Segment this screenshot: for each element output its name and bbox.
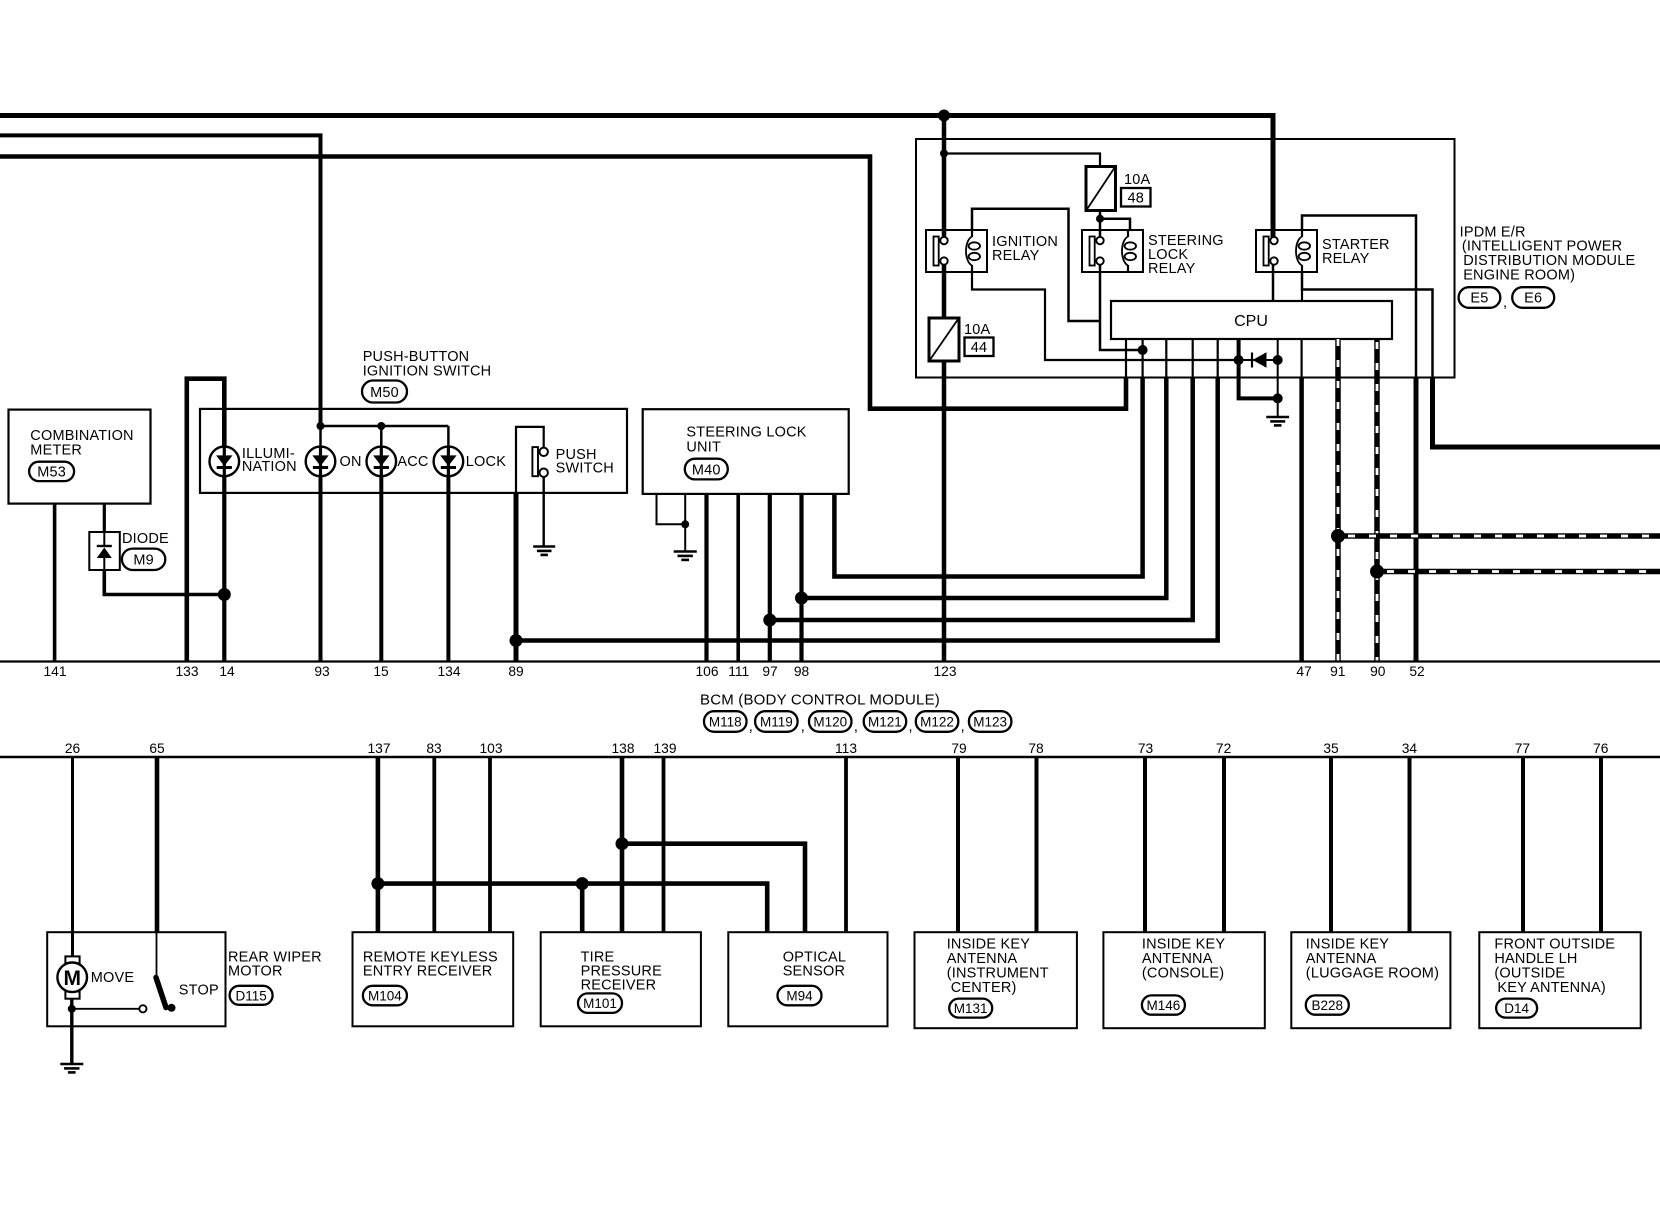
wire: ON LED top stub — [319, 426, 322, 447]
component: COMBINATION METER box M53 — [9, 410, 151, 504]
BCM bus top line — [0, 660, 1660, 662]
wire: LOCK LED top stub — [447, 426, 450, 447]
LED: illumination lamp — [210, 447, 240, 477]
wire: CPU pin to push switch net (BCM pin 89) — [516, 377, 1218, 640]
component: REAR WIPER MOTOR box D115 — [47, 932, 225, 1026]
wire: branch to steering lock relay coil — [1100, 219, 1130, 231]
svg-text:90: 90 — [1370, 664, 1386, 679]
wire: BCM pin 76 to front outside handle — [1599, 758, 1603, 932]
wire: CPU pin to BCM pin 97 net — [770, 377, 1193, 620]
wire: BCM pin 103 to keyless receiver — [488, 758, 492, 932]
component: push-button ignition switch box — [200, 409, 627, 493]
svg-text:M131: M131 — [954, 1001, 988, 1016]
node: shielded junction dot pin 90 — [1370, 565, 1384, 579]
svg-text:M123: M123 — [973, 715, 1007, 730]
LED: ON lamp — [306, 447, 336, 477]
wire: starter relay coil top to BCM pin 52 — [1302, 216, 1416, 378]
component: INSIDE KEY ANTENNA (INSTRUMENT CENTER) box M131 — [915, 932, 1077, 1028]
CPU box U1 — [1111, 301, 1392, 339]
node: dot fuse48 output branch — [1096, 215, 1104, 223]
IPDM E/R box — [916, 139, 1455, 378]
svg-text:M119: M119 — [760, 715, 793, 730]
svg-text:M146: M146 — [1147, 998, 1181, 1013]
svg-text:CENTER): CENTER) — [951, 980, 1017, 996]
wire: coil bottom stub to CPU top — [1301, 290, 1303, 302]
svg-text:10A: 10A — [1124, 172, 1151, 188]
svg-text:106: 106 — [695, 664, 718, 679]
wire: shielded horizontal to right edge (from pin 90 net) — [1377, 569, 1660, 575]
wire: BCM pin 83 to keyless receiver — [432, 758, 436, 932]
wire: illumination LED to BCM pin 14 — [222, 476, 226, 662]
svg-text:72: 72 — [1216, 741, 1231, 756]
connector M118 — [704, 711, 747, 732]
wire: thick segment to right edge at y 447 — [1433, 377, 1660, 447]
svg-text:(LUGGAGE ROOM): (LUGGAGE ROOM) — [1306, 965, 1439, 981]
svg-text:,: , — [854, 719, 858, 735]
component: REMOTE KEYLESS ENTRY RECEIVER box M104 — [353, 932, 514, 1026]
wire: shielded CPU pin to BCM pin 91 — [1335, 339, 1341, 662]
svg-text:KEY ANTENNA): KEY ANTENNA) — [1497, 980, 1606, 996]
svg-text:D115: D115 — [235, 988, 266, 1003]
svg-text:MOTOR: MOTOR — [228, 964, 283, 980]
connector E5 — [1459, 287, 1501, 308]
connector D14 — [1496, 999, 1537, 1018]
wire: BCM pin 113 to optical sensor — [844, 758, 848, 932]
wire: internal LED feed rail — [321, 425, 449, 428]
svg-text:134: 134 — [437, 664, 460, 679]
svg-text:139: 139 — [653, 741, 676, 756]
wire: top supply line 1 to starter relay contact — [0, 116, 1273, 238]
wire: ON LED to BCM pin 93 — [319, 476, 323, 662]
svg-text:,: , — [909, 719, 913, 735]
node: dot joining CPU pin line — [1138, 345, 1148, 355]
wire: CPU pin to BCM pin 98 net — [802, 377, 1167, 598]
svg-text:138: 138 — [611, 741, 634, 756]
connector E6 — [1512, 287, 1554, 308]
svg-text:E5: E5 — [1470, 291, 1488, 307]
svg-text:MOVE: MOVE — [91, 970, 135, 986]
connector M146 — [1142, 995, 1185, 1014]
wire: LOCK LED to BCM pin 134 — [446, 476, 450, 662]
svg-text:44: 44 — [971, 340, 988, 356]
svg-text:M120: M120 — [813, 715, 847, 730]
wire: branch from 137 to optical sensor — [378, 884, 767, 933]
svg-text:BCM (BODY CONTROL MODULE): BCM (BODY CONTROL MODULE) — [700, 692, 940, 709]
wire: steering relay contact bottom to CPU pin net — [1100, 264, 1143, 350]
svg-text:97: 97 — [762, 664, 777, 679]
wire: BCM pin 139 to tire pressure receiver — [662, 758, 666, 932]
wire: CPU pin stub (pin 98 net) — [1165, 339, 1167, 377]
node: branch dot to fuse 48 — [940, 150, 948, 158]
wire: CPU pin to BCM pin 47 — [1300, 339, 1302, 377]
svg-text:,: , — [1503, 295, 1507, 311]
fuse 44 — [929, 318, 959, 361]
connector M101 — [578, 993, 622, 1013]
connector M9 — [122, 549, 165, 570]
svg-text:DIODE: DIODE — [122, 531, 169, 547]
wire: CPU pin thick to diode ground branch — [1239, 339, 1278, 398]
wire: ignition relay contact bottom to fuse 44 — [942, 264, 947, 318]
svg-text:137: 137 — [367, 741, 390, 756]
wire: ACC LED to BCM pin 15 — [379, 476, 383, 662]
wire: CPU pin stub (push switch net) — [1217, 339, 1219, 377]
node: ground junction dot — [1273, 393, 1283, 403]
svg-text:M101: M101 — [583, 996, 617, 1011]
svg-text:M121: M121 — [868, 715, 902, 730]
label: fuse number 48 box — [1121, 188, 1151, 207]
wire: combination meter to diode M9 — [103, 504, 106, 533]
ground: IPDM CPU ground — [1266, 417, 1289, 425]
component: TIRE PRESSURE RECEIVER box M101 — [541, 932, 701, 1026]
ground: rear wiper motor ground — [60, 1064, 83, 1072]
connector M121 — [864, 711, 907, 732]
wire: CPU pin stub (pin 97 net) — [1192, 339, 1194, 377]
svg-text:NATION: NATION — [242, 459, 297, 475]
component: OPTICAL SENSOR box M94 — [728, 932, 887, 1026]
wire: starter relay contact bottom to CPU top — [1272, 264, 1275, 301]
wire: CPU pin stub above IPDM border for line 3 — [1125, 339, 1127, 377]
connector M123 — [969, 711, 1012, 732]
svg-text:123: 123 — [933, 664, 956, 679]
wire: shielded CPU pin to BCM pin 90 — [1374, 339, 1380, 662]
svg-text:91: 91 — [1330, 664, 1345, 679]
connector D115 — [230, 986, 273, 1005]
wire: BCM pin 77 to front outside handle — [1521, 758, 1525, 932]
node: junction dot on pin 14 wire — [218, 588, 231, 601]
wire: BCM pin 65 to rear wiper motor switch — [155, 758, 160, 932]
svg-text:73: 73 — [1138, 741, 1154, 756]
node: ground junction dot — [681, 520, 689, 528]
svg-text:STOP: STOP — [179, 983, 219, 999]
connector M122 — [916, 711, 959, 732]
wire: ignition relay contact feed from line 1 — [942, 116, 947, 239]
svg-text:133: 133 — [175, 664, 198, 679]
svg-text:M40: M40 — [692, 462, 721, 478]
svg-text:52: 52 — [1409, 664, 1424, 679]
svg-text:93: 93 — [314, 664, 330, 679]
wire: ACC LED top stub — [380, 426, 383, 447]
relay: ignition relay — [926, 230, 987, 272]
svg-text:65: 65 — [149, 741, 165, 756]
svg-text:48: 48 — [1128, 191, 1145, 207]
wire: CPU pin stub (net to steering lock unit) — [1141, 339, 1143, 377]
component: STEERING LOCK UNIT box M40 — [643, 409, 849, 494]
wire: motor lower terminal to ground — [70, 999, 73, 1064]
label: fuse number 44 box — [965, 338, 994, 357]
node: dot ACC LED feed — [377, 422, 385, 430]
svg-text:113: 113 — [835, 741, 857, 756]
svg-text:RELAY: RELAY — [1148, 261, 1196, 277]
relay: starter relay — [1256, 230, 1317, 272]
svg-text:M53: M53 — [37, 465, 66, 481]
svg-text:,: , — [749, 719, 753, 735]
fuse 48 — [1086, 167, 1116, 211]
diode D1 (IPDM internal) — [1239, 352, 1278, 367]
svg-text:15: 15 — [373, 664, 389, 679]
svg-text:26: 26 — [65, 741, 81, 756]
svg-text:89: 89 — [508, 664, 524, 679]
svg-text:RELAY: RELAY — [1322, 251, 1370, 267]
wire: diode output to BCM pin 14 net — [104, 570, 224, 595]
svg-text:ACC: ACC — [397, 454, 428, 470]
svg-text:CPU: CPU — [1234, 313, 1268, 330]
svg-text:M122: M122 — [920, 715, 954, 730]
node: junction dot tire pressure branch — [576, 877, 589, 890]
node: junction dot pin 138 branch — [616, 837, 629, 850]
wire: pin 52 thick segment to BCM — [1414, 377, 1419, 661]
wire: branch from 138 to optical sensor — [622, 844, 805, 933]
svg-text:79: 79 — [951, 741, 967, 756]
wire: fuse 48 output to steering lock relay — [1099, 211, 1102, 238]
wire: steering lock unit ground pin B — [684, 494, 686, 551]
connector M53 — [29, 462, 74, 481]
wire: steering lock unit ground pin A — [657, 494, 686, 524]
wire: CPU pin to steering lock unit pin 5 — [834, 377, 1142, 576]
ground: steering lock unit ground — [674, 552, 697, 560]
svg-text:SENSOR: SENSOR — [783, 964, 845, 980]
node: diode net left dot — [1234, 355, 1244, 365]
LED: LOCK lamp — [434, 447, 464, 477]
connector M104 — [363, 986, 407, 1006]
wire: motor return to stop contact — [72, 1008, 139, 1010]
wire: stop switch feed inside box — [156, 932, 158, 977]
wire: steering lock unit to BCM pin 97 — [768, 494, 772, 662]
ground: push switch ground — [533, 547, 555, 555]
svg-text:141: 141 — [43, 664, 66, 679]
svg-text:LOCK: LOCK — [466, 454, 506, 470]
wire: pin 47 thick segment — [1299, 377, 1304, 661]
svg-text:B228: B228 — [1312, 998, 1344, 1013]
svg-text:M: M — [63, 967, 81, 990]
svg-text:E6: E6 — [1524, 291, 1542, 307]
svg-text:RECEIVER: RECEIVER — [581, 978, 657, 994]
svg-text:77: 77 — [1515, 741, 1530, 756]
svg-text:,: , — [801, 719, 805, 735]
BCM bus bottom line — [0, 756, 1660, 759]
wire: steering lock unit to BCM pin 111 — [736, 494, 740, 662]
svg-text:83: 83 — [426, 741, 442, 756]
connector B228 — [1306, 995, 1349, 1014]
wire: BCM pin 34 to inside key antenna luggage — [1408, 758, 1412, 932]
wire: BCM pin 78 to inside key antenna instrument — [1035, 758, 1039, 932]
svg-text:(CONSOLE): (CONSOLE) — [1142, 965, 1224, 981]
wire: combination meter to BCM pin 141 — [53, 504, 57, 662]
wire: top supply line 2 down to push-button ignition switch — [0, 135, 321, 426]
svg-text:M104: M104 — [368, 989, 402, 1004]
svg-text:34: 34 — [1402, 741, 1418, 756]
connector M50 — [362, 381, 407, 403]
component: INSIDE KEY ANTENNA (LUGGAGE ROOM) box B228 — [1291, 932, 1450, 1028]
node: junction dot pin 137 branch — [371, 877, 384, 890]
svg-text:111: 111 — [728, 664, 749, 679]
svg-text:ENGINE ROOM): ENGINE ROOM) — [1463, 267, 1575, 283]
svg-text:RELAY: RELAY — [992, 248, 1040, 264]
svg-text:D14: D14 — [1504, 1001, 1529, 1016]
relay: steering lock relay — [1082, 230, 1143, 272]
node: dot ON LED feed — [317, 422, 325, 430]
svg-text:M118: M118 — [709, 715, 742, 730]
wire: ignition relay coil bottom to diode net — [972, 271, 1239, 360]
svg-text:76: 76 — [1593, 741, 1609, 756]
svg-text:,: , — [961, 719, 965, 735]
terminal: stop switch open contact — [139, 1005, 146, 1012]
node: junction dot motor return — [68, 1005, 76, 1013]
node: junction dot line1 / ignition relay feed — [938, 110, 950, 122]
connector M40 — [685, 459, 728, 480]
wire: push switch lower contact to ground — [543, 477, 545, 546]
svg-text:M94: M94 — [786, 989, 813, 1004]
svg-text:STEERING LOCK: STEERING LOCK — [686, 425, 806, 441]
svg-text:98: 98 — [794, 664, 810, 679]
svg-text:35: 35 — [1323, 741, 1339, 756]
wire: BCM pin 138 to tire pressure receiver — [620, 758, 625, 932]
wire: steering lock unit to BCM pin 98 — [799, 494, 803, 662]
wire: branch down to tire pressure receiver — [580, 884, 585, 933]
node: shielded junction dot pin 91 — [1331, 529, 1345, 543]
wire: BCM pin 133 up and over to illumination LED — [187, 379, 225, 662]
svg-text:IGNITION SWITCH: IGNITION SWITCH — [363, 364, 492, 380]
wire: fuse 44 to BCM pin 123 — [942, 361, 947, 662]
component: FRONT OUTSIDE HANDLE LH box D14 — [1479, 932, 1640, 1028]
wire: BCM pin 137 to keyless receiver — [376, 758, 381, 932]
wire: steering lock unit to BCM pin 106 — [704, 494, 708, 662]
connector M119 — [755, 711, 798, 732]
diode M9 component box — [89, 532, 120, 570]
wire: BCM pin 26 to rear wiper motor — [71, 758, 74, 957]
connector M131 — [949, 999, 992, 1018]
svg-text:47: 47 — [1296, 664, 1311, 679]
wire: ignition relay coil top path to steering relay contact line — [972, 209, 1100, 321]
svg-text:M50: M50 — [370, 385, 399, 401]
connector M120 — [809, 711, 852, 732]
svg-text:103: 103 — [479, 741, 502, 756]
svg-text:METER: METER — [30, 443, 82, 459]
svg-text:ON: ON — [340, 454, 362, 470]
node: junction dot pin 97 wire / CPU net — [763, 614, 776, 627]
component: INSIDE KEY ANTENNA (CONSOLE) box M146 — [1103, 932, 1264, 1028]
svg-text:78: 78 — [1028, 741, 1044, 756]
svg-text:M9: M9 — [133, 553, 154, 569]
wire: CPU pin to diode and ground — [1277, 339, 1279, 416]
wire: BCM pin 35 to inside key antenna luggage — [1329, 758, 1333, 932]
switch: push switch symbol — [516, 427, 548, 493]
node: junction dot pin 89 wire / CPU net — [510, 634, 523, 647]
svg-text:SWITCH: SWITCH — [556, 461, 614, 477]
svg-text:10A: 10A — [964, 322, 991, 338]
wire: starter relay coil bottom to CPU top and right edge — [1302, 271, 1433, 377]
svg-text:14: 14 — [219, 664, 235, 679]
wire: BCM pin 79 to inside key antenna instrument — [956, 758, 960, 932]
wire: BCM pin 72 to inside key antenna console — [1222, 758, 1226, 932]
wire: shielded horizontal to right edge (from pin 91 net) — [1338, 533, 1660, 539]
wire: push switch to BCM pin 89 — [514, 493, 519, 662]
node: junction dot pin 98 wire / CPU net — [795, 592, 808, 605]
switch: wiper stop lever — [156, 978, 176, 1012]
node: diode net right dot — [1273, 355, 1283, 365]
wire: top supply line 3 to CPU pin (L shape) — [0, 157, 1126, 409]
svg-text:ENTRY RECEIVER: ENTRY RECEIVER — [363, 964, 493, 980]
svg-text:UNIT: UNIT — [686, 439, 721, 455]
motor: rear wiper motor M — [57, 956, 87, 998]
wire: branch to fuse 48 — [944, 154, 1100, 168]
wire: BCM pin 73 to inside key antenna console — [1143, 758, 1147, 932]
connector M94 — [778, 986, 822, 1006]
LED: ACC lamp — [367, 447, 397, 477]
